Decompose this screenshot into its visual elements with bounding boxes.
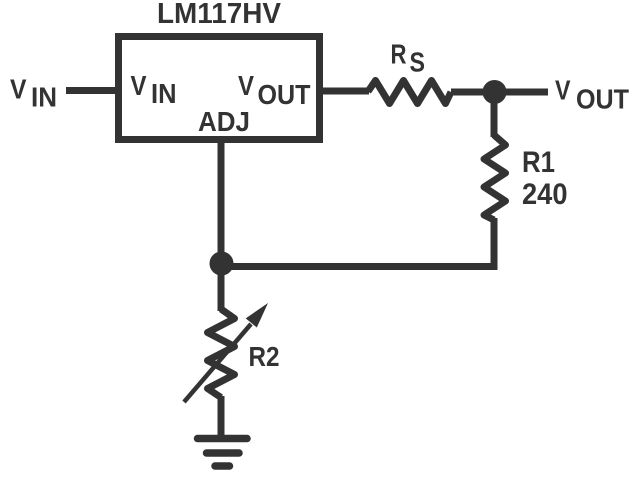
wire node to R1: [491, 98, 498, 137]
node VOUT junction: [483, 80, 507, 104]
svg-text:LM117HV: LM117HV: [157, 0, 282, 30]
svg-text:R1: R1: [522, 146, 555, 179]
wire node to VOUT label: [499, 89, 548, 96]
svg-text:V: V: [10, 74, 27, 105]
resistor R1: [484, 135, 506, 220]
svg-text:V: V: [238, 70, 254, 101]
arrow of variable resistor R2: [184, 324, 251, 402]
wire ADJ pin down: [218, 139, 225, 311]
node ADJ junction: [210, 252, 234, 276]
wire VOUT pin to RS: [322, 88, 369, 95]
wire RS to node: [451, 89, 490, 96]
ground: [198, 435, 248, 443]
svg-text:R: R: [391, 39, 407, 70]
IC U1 LM117HV box: [119, 37, 320, 140]
svg-text:OUT: OUT: [576, 84, 629, 115]
svg-text:OUT: OUT: [258, 79, 311, 110]
svg-text:V: V: [555, 75, 571, 106]
svg-text:S: S: [410, 47, 426, 78]
resistor RS: [368, 81, 451, 104]
wire R2 to ground: [218, 396, 225, 438]
wire R1 bottom elbow to ADJ node: [222, 218, 494, 267]
svg-text:IN: IN: [151, 78, 177, 109]
resistor R2 variable: [208, 309, 235, 398]
svg-text:R2: R2: [249, 341, 280, 372]
svg-text:240: 240: [522, 178, 568, 211]
svg-text:ADJ: ADJ: [198, 106, 250, 137]
svg-text:V: V: [131, 70, 147, 101]
svg-text:IN: IN: [31, 82, 57, 113]
wire VIN input: [66, 87, 116, 94]
